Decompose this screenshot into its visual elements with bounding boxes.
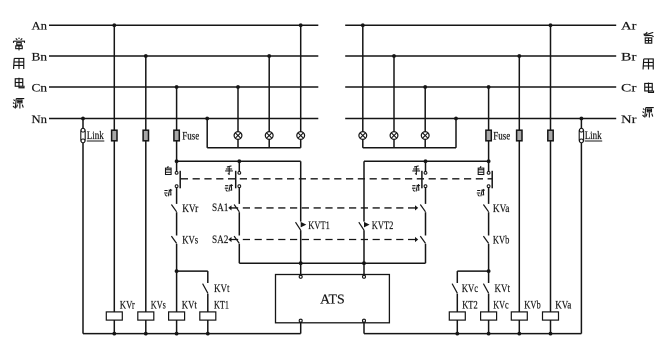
svg-text:KVb: KVb — [493, 233, 510, 247]
wire bottom rail left — [83, 333, 301, 335]
wire to KVc coil — [488, 294, 490, 312]
terminal ATS top-right — [363, 275, 366, 278]
svg-text:SA1: SA1 — [212, 200, 228, 214]
svg-text:ATS: ATS — [320, 292, 345, 307]
coil KVt — [169, 312, 185, 320]
wire SA1 to SA2 right — [425, 212, 427, 235]
svg-text:KVr: KVr — [120, 297, 135, 311]
wire Bn drop to KVs coil — [145, 56, 147, 312]
bus Br — [345, 55, 616, 57]
wire to KT1 coil — [207, 294, 209, 312]
wire ATS bottom-left drop — [300, 323, 302, 334]
wire manual right to SA1 — [425, 187, 427, 204]
coil KVc — [481, 312, 497, 320]
coil KVa — [543, 312, 559, 320]
wire lamp feed line right — [363, 147, 456, 149]
caption standby supply 备用电源 — [643, 32, 654, 117]
coil KT2 — [449, 312, 465, 320]
wire KVT2 vertical — [363, 161, 365, 221]
caption normal supply 常用电源 — [13, 38, 25, 109]
wire Cr drop (control feed) — [488, 87, 490, 172]
svg-text:Fuse: Fuse — [182, 129, 199, 143]
contact KVb — [483, 236, 488, 243]
lamp HL (Bn) — [265, 132, 273, 140]
wire SA1 to SA2 left — [238, 212, 240, 235]
wire KT2 branch horizontal — [457, 270, 488, 272]
switch contact manual (right) 手动 — [425, 161, 427, 171]
coil KVb — [511, 312, 527, 320]
svg-text:KVt: KVt — [495, 281, 511, 295]
wire KVb contact down — [488, 244, 490, 283]
bus Cr — [345, 86, 616, 88]
fuse FU on An drop — [112, 130, 117, 141]
wire auto contact to KVr contact — [176, 188, 178, 204]
svg-text:KVb: KVb — [524, 297, 541, 311]
svg-text:KVc: KVc — [462, 281, 479, 295]
svg-text:Link: Link — [87, 128, 104, 142]
wire KVs contact to KVt coil — [176, 244, 178, 312]
fuse FU on Br drop — [517, 130, 522, 141]
contact KVc (above KT2) — [452, 284, 457, 294]
svg-text:Bn: Bn — [32, 49, 48, 63]
wire lamp feed line left — [207, 147, 301, 149]
label 手动 left — [225, 166, 233, 174]
svg-text:SA2: SA2 — [212, 232, 228, 246]
svg-text:KVt: KVt — [182, 297, 197, 311]
fuse FU on Ar drop — [548, 130, 553, 141]
wire lamp drop from Cn — [237, 87, 239, 132]
wire Nn stub to lamp feed — [206, 119, 208, 148]
switch contact manual (left) 手动 — [238, 161, 240, 171]
bus Ar — [345, 24, 616, 26]
label 手动 right — [412, 166, 420, 174]
wire An drop to KVr coil — [113, 25, 115, 312]
wire control feed right — [364, 160, 489, 162]
fuse FU on Bn drop — [143, 130, 148, 141]
lamp HL (An) — [297, 132, 305, 140]
svg-text:Link: Link — [585, 128, 602, 142]
ATS controller box U1 — [276, 275, 390, 323]
fuse link on Nn — [81, 129, 85, 143]
svg-text:KVt: KVt — [214, 281, 230, 295]
wire lamp drop from Cr — [424, 87, 426, 132]
contact SA2 right — [420, 236, 425, 243]
contact KVT2 — [359, 222, 364, 230]
svg-text:Fuse: Fuse — [493, 129, 510, 143]
lamp HL (Cn) — [234, 132, 242, 140]
lamp HL (Cr) — [421, 132, 429, 140]
wire SA2 left down to ATS feed — [238, 244, 240, 263]
wire Ar drop to KVa coil — [550, 25, 552, 312]
contact KVs — [171, 236, 176, 243]
wire to KT2 coil — [456, 294, 458, 312]
svg-text:Ar: Ar — [621, 19, 637, 33]
junction dots bottom rail — [112, 332, 116, 336]
svg-text:Cn: Cn — [32, 80, 48, 94]
fuse FU on Cn drop — [174, 130, 179, 141]
contact KVa — [483, 205, 488, 212]
wire Nr link drop — [580, 119, 582, 334]
svg-text:Br: Br — [621, 49, 637, 63]
wire KT2 branch vertical — [456, 271, 458, 283]
svg-text:KVa: KVa — [555, 297, 572, 311]
svg-text:KT2: KT2 — [462, 297, 478, 311]
contact KVt (above KT1) — [203, 284, 208, 294]
coil KT1 — [200, 312, 216, 320]
bus Nn — [49, 118, 318, 120]
bus An — [49, 24, 318, 26]
wire manual left to SA1 — [238, 188, 240, 204]
switch contact auto (right) 自动 — [487, 172, 490, 175]
contact KVr — [171, 205, 176, 212]
svg-text:An: An — [32, 19, 48, 33]
svg-text:KVa: KVa — [493, 201, 510, 215]
wire KVr to KVs contact — [176, 212, 178, 235]
terminal ATS bottom-right — [363, 319, 366, 322]
wire lamp drop from Br — [393, 56, 395, 132]
dashed linkage SA1 — [228, 205, 231, 210]
svg-text:KVs: KVs — [182, 233, 198, 247]
wire ATS feed horizontal — [239, 262, 425, 264]
bus Cn — [49, 86, 318, 88]
svg-text:KVs: KVs — [151, 297, 166, 311]
contact SA1 left — [234, 205, 239, 212]
wire KT1 branch vertical — [207, 271, 209, 283]
terminal ATS bottom-left — [299, 319, 302, 322]
svg-text:KVc: KVc — [493, 297, 509, 311]
wire lamp drop from An — [300, 25, 302, 131]
contact SA1 right — [420, 205, 425, 212]
lamp HL (Br) — [390, 132, 398, 140]
bus Nr — [345, 118, 616, 120]
switch contact auto (left) 自动 — [175, 172, 178, 175]
junction dots control lines — [175, 159, 179, 163]
wire lamp drop from Bn — [268, 56, 270, 132]
wire ATS bottom-right drop — [363, 323, 365, 334]
dashed linkage auto-manual — [181, 178, 492, 180]
wire KT1 branch horizontal — [177, 270, 208, 272]
wire Br drop to KVb coil — [518, 56, 520, 312]
fuse link on Nr — [579, 129, 583, 143]
wire control feed left — [177, 160, 301, 162]
wire KVa to KVb contact — [488, 212, 490, 235]
svg-text:KVr: KVr — [182, 201, 198, 215]
wire Nr stub to lamp feed — [455, 119, 457, 148]
wire KVT1 vertical — [300, 161, 302, 221]
svg-text:Cr: Cr — [621, 80, 637, 94]
coil KVr — [106, 312, 122, 320]
contact KVt (above KVc coil) — [483, 284, 488, 294]
svg-text:Nr: Nr — [621, 112, 637, 126]
svg-text:KVT2: KVT2 — [372, 218, 394, 232]
wire Nn link drop — [82, 119, 84, 334]
wire Cn drop (control feed) — [176, 87, 178, 172]
label 自动 right — [478, 166, 484, 174]
svg-text:KVT1: KVT1 — [308, 218, 330, 232]
lamp HL (Ar) — [359, 132, 367, 140]
wire auto contact to KVa contact — [488, 187, 490, 204]
junction dots top buses — [112, 23, 116, 27]
label 自动 left — [165, 166, 171, 174]
bus Bn — [49, 55, 318, 57]
svg-text:KT1: KT1 — [214, 297, 229, 311]
wire lamp drop from Ar — [362, 25, 364, 131]
wire SA2 right down to ATS feed — [425, 244, 427, 263]
svg-text:Nn: Nn — [32, 112, 48, 126]
wire bottom rail right — [364, 333, 581, 335]
fuse FU on Cr drop — [486, 130, 491, 141]
contact KVT1 — [296, 222, 301, 230]
contact SA2 left — [234, 236, 239, 243]
terminal ATS top-left — [299, 275, 302, 278]
dashed linkage SA2 — [228, 237, 231, 242]
coil KVs — [138, 312, 154, 320]
